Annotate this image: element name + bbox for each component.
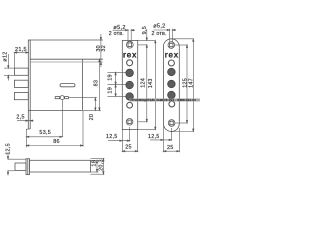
plate2 bolt hole 2 — [168, 80, 176, 88]
dim 124 plate1 — [138, 45, 148, 122]
dim 86 — [26, 111, 83, 147]
dim 20 — [95, 98, 96, 111]
lock body side view — [28, 59, 82, 110]
dim 21,5 — [14, 52, 28, 68]
dim 9,5 plate1 — [138, 29, 148, 45]
bottom view body — [30, 160, 91, 172]
svg-text:25: 25 — [167, 145, 174, 151]
plate1 bottom ext lines — [122, 127, 137, 152]
svg-text:124: 124 — [141, 78, 147, 88]
strip top extension line to 30/32 dim — [28, 39, 103, 41]
body top ext lines to 30/32 dim — [83, 58, 103, 60]
plate1 hollow circle — [127, 60, 133, 66]
svg-text:12,5: 12,5 — [106, 134, 118, 140]
dim 12,5 plate2 — [150, 139, 172, 140]
plate2 top ext to 147 dim — [171, 38, 193, 40]
svg-text:83: 83 — [94, 80, 100, 87]
plate2 screw centerline ext — [175, 45, 188, 123]
plate1 top ext to 143 dim — [138, 39, 156, 41]
faceplate 1 outline — [122, 40, 137, 129]
svg-text:ПРОИЗВОДИТЕЛЬ ЗАМКОВ РЕХ - WWW: ПРОИЗВОДИТЕЛЬ ЗАМКОВ РЕХ - WWW.REX.RU — [131, 99, 197, 102]
plate2 screw hole top — [168, 42, 175, 49]
svg-text:2 отв.: 2 отв. — [152, 31, 167, 37]
plate2 screw hole bottom — [168, 120, 175, 127]
svg-text:18: 18 — [92, 160, 98, 167]
dim 143 plate1 — [138, 40, 156, 129]
dim 12,5 plate1 — [108, 140, 130, 141]
dim 2,5 strip thickness — [17, 120, 34, 121]
plate2 hollow circle — [168, 60, 174, 66]
plate1 screw hole top — [126, 41, 133, 48]
svg-text:20,3: 20,3 — [99, 159, 105, 171]
dim 25 plate1 — [122, 151, 137, 152]
plate1 bolt hole 1 — [126, 69, 134, 77]
faceplate 2 outline stadium — [163, 39, 179, 132]
svg-text:ø5,2: ø5,2 — [153, 24, 165, 30]
dim 12,5 bottom view — [7, 154, 26, 176]
dim 30/32 — [99, 34, 103, 67]
keyhole centerline ext right — [69, 97, 97, 99]
dim ø5,2 plate1 leaders — [113, 29, 136, 42]
svg-text:2 отв.: 2 отв. — [109, 31, 124, 37]
svg-text:20: 20 — [89, 114, 95, 121]
bolt centerlines to plate1 — [108, 72, 127, 96]
svg-text:12,5: 12,5 — [5, 143, 11, 155]
svg-text:12,5: 12,5 — [148, 134, 160, 140]
svg-text:125: 125 — [182, 78, 188, 88]
plate1 screw hole bottom — [126, 119, 133, 126]
dim 125 plate2 — [186, 45, 187, 123]
bolt 1 — [14, 68, 28, 75]
dim 20,3 bottom view — [91, 159, 105, 175]
bolt 3 — [14, 93, 28, 100]
watermark bar — [130, 99, 201, 103]
bottom view bolt — [15, 163, 26, 171]
body bottom ext right — [83, 109, 102, 111]
dim ø12 — [4, 54, 14, 81]
svg-text:9,5: 9,5 — [142, 26, 148, 34]
svg-text:ø12: ø12 — [2, 51, 8, 61]
dim 53,5 — [26, 136, 62, 137]
svg-text:25: 25 — [125, 144, 132, 150]
dim 147 plate2 — [171, 39, 194, 132]
cylinder keyhole side view — [55, 96, 68, 100]
svg-text:19: 19 — [107, 74, 113, 81]
handle slot — [60, 84, 75, 87]
ext line x26.3 for 53,5/86 — [26, 129, 28, 147]
plate1 bolt hole 2 — [126, 81, 134, 89]
svg-text:53,5: 53,5 — [39, 130, 51, 136]
plate1 bolt hole 3 — [126, 93, 134, 101]
dim 25 plate2 — [163, 128, 179, 152]
svg-text:147: 147 — [189, 78, 195, 88]
dim 83 — [99, 59, 100, 110]
dim ø5,2 plate2 leaders — [154, 29, 177, 42]
dim 19 19 — [115, 72, 116, 96]
svg-text:rex: rex — [123, 50, 137, 60]
svg-text:86: 86 — [53, 139, 60, 145]
plate2 hollow circle low — [169, 101, 175, 107]
faceplate strip side view — [28, 40, 30, 129]
svg-text:32: 32 — [101, 45, 107, 52]
svg-text:143: 143 — [148, 78, 154, 88]
dim 18 bottom view — [91, 160, 99, 172]
svg-text:19: 19 — [107, 87, 113, 94]
keyhole drop ext line — [61, 100, 63, 137]
bottom view strip cross-section — [26, 159, 30, 175]
svg-text:rex: rex — [165, 50, 179, 60]
svg-text:ø5,2: ø5,2 — [113, 25, 125, 31]
plate2 bottom ext lines — [163, 126, 171, 152]
svg-text:21,5: 21,5 — [15, 47, 27, 53]
bolt 2 — [14, 80, 28, 87]
svg-text:2,5: 2,5 — [16, 115, 24, 121]
plate1 hollow circle low — [127, 102, 133, 108]
plate2 bolt hole 3 — [168, 91, 176, 99]
plate2 bolt hole 1 — [168, 68, 176, 76]
